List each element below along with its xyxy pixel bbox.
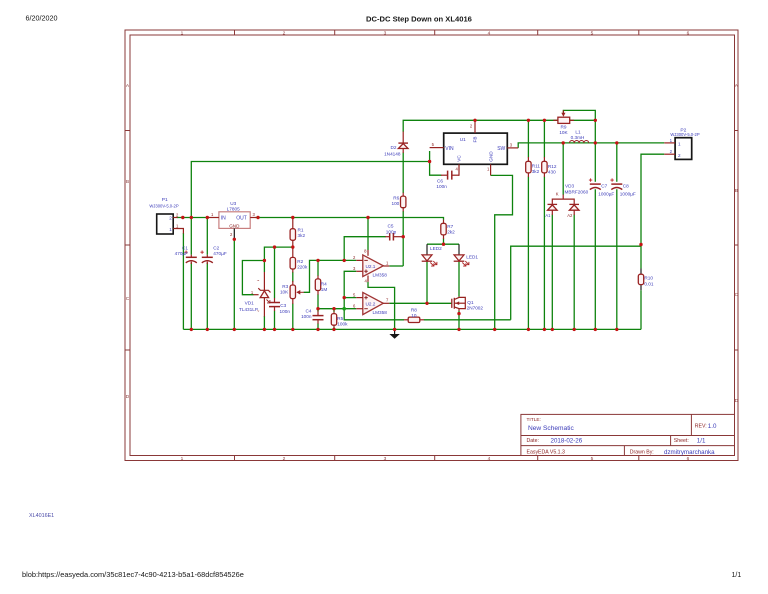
- ruler tick bottom 1: [234, 456, 236, 461]
- sheet border outer frame: [125, 30, 738, 461]
- junction P1 pin2 b: [190, 216, 193, 219]
- pin U3.1: [209, 217, 219, 219]
- junction Q1 source pin: [457, 312, 460, 315]
- svg-text:VD3: VD3: [565, 184, 575, 189]
- junction P1 pin2 a: [181, 216, 184, 219]
- svg-text:K: K: [556, 191, 559, 196]
- svg-text:1: 1: [169, 227, 172, 232]
- wire LED anode bar: [427, 243, 459, 245]
- junction R1 top: [291, 216, 294, 219]
- svg-text:~: ~: [257, 278, 260, 283]
- svg-text:100n: 100n: [280, 309, 291, 314]
- junction rail VD1: [263, 328, 266, 331]
- svg-text:3: 3: [384, 30, 387, 36]
- connector P1: [149, 197, 179, 234]
- svg-text:SW: SW: [497, 146, 505, 152]
- pin P2.2: [664, 153, 675, 155]
- capacitor C1 polarized: [175, 245, 197, 264]
- pin P2.1: [664, 142, 675, 144]
- svg-text:100k: 100k: [337, 322, 348, 327]
- wire LED1 cathode to Q1 drain: [458, 261, 460, 296]
- ruler tick top 2: [334, 30, 336, 35]
- inductor L1: [570, 130, 589, 143]
- junction rail U1gnd: [493, 328, 496, 331]
- junction rail Q1: [457, 328, 460, 331]
- wire P1 pin2 to U3 IN: [177, 217, 209, 219]
- junction R7 bottom LED bar: [442, 243, 445, 246]
- svg-text:TL431LP: TL431LP: [239, 307, 258, 312]
- wire VD3 right anode to ground rail: [573, 215, 575, 330]
- wire VD3 left anode to ground rail: [551, 215, 553, 330]
- svg-text:R5: R5: [337, 316, 343, 321]
- junction rail C1: [190, 328, 193, 331]
- pin U1.2 FB: [474, 120, 476, 133]
- svg-text:R10: R10: [644, 276, 653, 281]
- svg-text:100p: 100p: [386, 229, 397, 234]
- wire SW riser to output rail: [518, 143, 664, 148]
- svg-text:1000µF: 1000µF: [598, 192, 614, 197]
- dual diode VD3 MBRF2060: [545, 184, 588, 218]
- wire C8 branch upper: [616, 143, 618, 182]
- junction rail C4: [316, 328, 319, 331]
- ruler tick bottom 5: [638, 456, 640, 461]
- wire LED2 cathode to gate row: [426, 261, 428, 303]
- junction rail R3: [291, 328, 294, 331]
- junction rail R11: [527, 328, 530, 331]
- svg-text:R1: R1: [298, 228, 304, 233]
- svg-text:1: 1: [181, 456, 184, 462]
- wire C4 bottom to ground rail: [317, 323, 319, 329]
- junction opamp V+: [366, 216, 369, 219]
- svg-text:2: 2: [283, 456, 286, 462]
- wire R3 wiper to inverting input row: [304, 260, 357, 292]
- ruler tick top 1: [234, 30, 236, 35]
- wire R11 branch top: [527, 120, 529, 157]
- svg-text:0.3mH: 0.3mH: [571, 135, 585, 140]
- title block divider Sheet: [670, 436, 672, 446]
- svg-text:EasyEDA V5.1.3: EasyEDA V5.1.3: [527, 449, 565, 455]
- junction R4 C4 pin6: [316, 307, 319, 310]
- ruler tick top 4: [537, 30, 539, 35]
- capacitor C3: [269, 298, 290, 314]
- svg-text:6: 6: [687, 456, 690, 462]
- svg-text:C3: C3: [280, 303, 286, 308]
- svg-text:0.01: 0.01: [644, 281, 654, 286]
- svg-text:D2: D2: [391, 145, 397, 150]
- svg-text:Drawn By:: Drawn By:: [630, 449, 654, 455]
- svg-text:5: 5: [591, 456, 594, 462]
- svg-text:R2: R2: [297, 259, 303, 264]
- svg-text:U3: U3: [230, 201, 236, 206]
- svg-text:R6: R6: [393, 196, 399, 201]
- svg-text:R7: R7: [447, 224, 453, 229]
- svg-text:5: 5: [591, 30, 594, 36]
- ruler tick top 3: [434, 30, 436, 35]
- svg-text:1/1: 1/1: [732, 572, 742, 579]
- title block row line 2: [521, 445, 735, 447]
- svg-text:FB: FB: [473, 137, 478, 143]
- svg-text:C2: C2: [213, 245, 219, 250]
- svg-text:10: 10: [411, 313, 417, 318]
- svg-text:3k2: 3k2: [532, 169, 540, 174]
- pin U1.3 SW: [507, 147, 518, 149]
- svg-text:GND: GND: [488, 151, 493, 162]
- junction R9 right: [594, 119, 597, 122]
- pin P1.2: [173, 217, 177, 219]
- junction R5 top: [332, 307, 335, 310]
- svg-text:D: D: [735, 398, 739, 404]
- wire opamp V+ pin8 drop from +5V rail: [367, 218, 369, 251]
- svg-text:1N4148: 1N4148: [384, 151, 401, 156]
- wire C1 branch lower: [190, 263, 192, 330]
- svg-text:REV:: REV:: [695, 424, 707, 430]
- svg-text:470µF: 470µF: [175, 251, 189, 256]
- svg-text:VIN: VIN: [445, 146, 454, 152]
- wire D2 anode to R6: [402, 153, 404, 194]
- wire LED2 drop black upper: [426, 244, 428, 255]
- junction R11 top: [527, 119, 530, 122]
- svg-text:L1: L1: [575, 130, 581, 135]
- resistor R12: [542, 157, 557, 177]
- svg-text:VD1: VD1: [245, 301, 255, 306]
- wire R9 wiper loop: [563, 110, 595, 142]
- wire C1 branch upper: [190, 218, 192, 255]
- wire U1 GND jog down to ground rail: [491, 175, 513, 329]
- svg-text:1.0: 1.0: [708, 423, 717, 430]
- svg-text:C4: C4: [306, 308, 312, 313]
- title block row line 1: [521, 435, 735, 437]
- svg-text:LED2: LED2: [430, 246, 442, 251]
- sheet border inner frame: [130, 35, 735, 456]
- capacitor C5: [385, 224, 403, 241]
- svg-text:XL4016E1: XL4016E1: [29, 513, 54, 519]
- svg-text:C6: C6: [437, 178, 443, 183]
- svg-text:R9: R9: [561, 125, 567, 130]
- wire P1 pin1 down to ground rail corner: [182, 233, 184, 329]
- svg-text:10K: 10K: [559, 130, 568, 135]
- svg-text:1/1: 1/1: [697, 438, 706, 445]
- svg-text:2018-02-26: 2018-02-26: [551, 438, 583, 445]
- wire noninv pin3 down to pin5 and R8 corner: [344, 271, 404, 320]
- LED1: [454, 255, 479, 266]
- capacitor C4: [301, 308, 323, 324]
- wire VD3 cathode stem: [562, 143, 564, 195]
- junction dots red: [181, 119, 643, 331]
- capacitor C7 polarized: [589, 178, 615, 196]
- svg-text:C7: C7: [601, 183, 607, 188]
- shunt regulator VD1 TL431LP: [239, 272, 271, 317]
- ruler tick left 3: [125, 349, 130, 351]
- wire R4 to C4 link: [317, 294, 319, 311]
- junction green pin6 crossing: [342, 307, 346, 311]
- wire input rail from P1 up-and-over: [191, 162, 429, 218]
- svg-text:New Schematic: New Schematic: [528, 425, 575, 432]
- ruler tick right 1: [735, 130, 739, 132]
- svg-text:6/20/2020: 6/20/2020: [26, 14, 58, 23]
- ruler tick bottom 2: [334, 456, 336, 461]
- svg-text:2k2: 2k2: [447, 230, 455, 235]
- ruler tick left 1: [125, 130, 130, 132]
- svg-text:2: 2: [283, 30, 286, 36]
- resistor R1: [290, 218, 305, 248]
- junction rail VD3L: [551, 328, 554, 331]
- junction rail R12: [543, 328, 546, 331]
- svg-text:C8: C8: [623, 183, 629, 188]
- svg-text:R11: R11: [532, 163, 541, 168]
- wire P2 pin2 to R10 column: [641, 154, 664, 268]
- wire C3 branch upper: [274, 247, 276, 298]
- wire pin6 row to R4 C4 node: [318, 308, 356, 310]
- svg-text:C: C: [126, 296, 130, 302]
- svg-text:dzmitrymarchanka: dzmitrymarchanka: [664, 449, 715, 456]
- wire C3 branch lower: [274, 311, 276, 330]
- wire C2 branch lower: [206, 263, 208, 330]
- ruler tick bottom 4: [537, 456, 539, 461]
- wire U2.1 output to C5 riser: [389, 265, 403, 267]
- wire R7 bottom to LED bar: [443, 239, 445, 245]
- svg-text:1: 1: [678, 142, 681, 147]
- wire R12 bottom to ground rail: [543, 177, 545, 330]
- junction rail C7: [594, 328, 597, 331]
- junction C2 top: [206, 216, 209, 219]
- svg-text:Sheet:: Sheet:: [674, 438, 689, 444]
- wire R9 pot right leg down to output rail: [570, 119, 596, 121]
- svg-text:100n: 100n: [436, 184, 447, 189]
- svg-text:P1: P1: [162, 197, 168, 203]
- svg-text:WJ300V-5.0-2P: WJ300V-5.0-2P: [670, 132, 700, 137]
- wire R10 lead lower black: [640, 285, 642, 291]
- junction VD1 ref tie: [263, 259, 266, 262]
- resistor R7: [441, 220, 455, 239]
- svg-text:220k: 220k: [297, 265, 308, 270]
- op-amp U2.1 LM358: [353, 249, 389, 284]
- pin U1.5 VIN: [430, 147, 444, 149]
- pin U3.3: [250, 217, 256, 219]
- wire R12 branch top: [543, 120, 545, 157]
- pin U3.2 GND black: [233, 228, 235, 239]
- svg-text:C5: C5: [388, 224, 394, 229]
- junction C7 top: [594, 141, 597, 144]
- svg-text:Q1: Q1: [467, 300, 474, 305]
- junction rail U3gnd: [233, 328, 236, 331]
- junction VD3 top: [562, 141, 565, 144]
- title block outline: [521, 414, 735, 455]
- ruler tick right 2: [735, 244, 739, 246]
- svg-text:3k2: 3k2: [298, 233, 306, 238]
- svg-text:470µF: 470µF: [213, 251, 227, 256]
- wire R4 branch top: [317, 260, 319, 276]
- junction pin5: [343, 296, 346, 299]
- junction R10 top: [639, 243, 642, 246]
- junction node247 C3: [273, 245, 276, 248]
- wire +5V rail U3 OUT to R7 corner: [256, 218, 444, 220]
- wire VD1 ref loop: [242, 261, 264, 295]
- wire U2.2 output to Q1 gate: [389, 302, 452, 304]
- svg-text:4: 4: [488, 30, 491, 36]
- resistor R6: [391, 193, 405, 212]
- svg-text:1M: 1M: [321, 287, 328, 292]
- resistor R8 horizontal: [404, 307, 424, 322]
- capacitor C8 polarized: [610, 178, 636, 196]
- svg-text:LM358: LM358: [373, 272, 388, 277]
- ruler tick bottom 3: [434, 456, 436, 461]
- svg-text:B: B: [735, 188, 738, 194]
- pin P1.1: [173, 229, 183, 234]
- wire VD1 cathode lower to ground rail: [263, 316, 265, 329]
- junction LED2 gate row: [425, 302, 428, 305]
- junction U3 out: [256, 216, 259, 219]
- svg-text:Date:: Date:: [527, 438, 539, 444]
- title block divider DrawnBy: [623, 446, 625, 456]
- wire VIN drop to C6 row: [430, 151, 442, 175]
- junction rail C8: [615, 328, 618, 331]
- wire R5 top stub: [333, 309, 335, 312]
- wire R2 to R3 link: [292, 272, 294, 282]
- svg-text:IN: IN: [221, 216, 226, 222]
- resistor R2: [290, 247, 308, 272]
- ruler tick top 5: [638, 30, 640, 35]
- svg-text:WJ300V-5.0-2P: WJ300V-5.0-2P: [149, 204, 179, 209]
- connector P2: [670, 128, 700, 160]
- junction rail C2: [206, 328, 209, 331]
- svg-text:LM358: LM358: [373, 310, 388, 315]
- wire R8 right to sense riser: [424, 319, 511, 321]
- svg-text:A2: A2: [567, 213, 573, 218]
- resistor R11: [526, 157, 541, 177]
- svg-text:6: 6: [687, 30, 690, 36]
- pin U1.1 GND: [490, 164, 492, 175]
- svg-text:R8: R8: [411, 307, 417, 312]
- svg-text:1: 1: [181, 30, 184, 36]
- svg-text:2: 2: [678, 153, 681, 158]
- wire R11 bottom to ground rail: [527, 177, 529, 330]
- svg-text:U2.1: U2.1: [366, 264, 376, 269]
- svg-text:VC: VC: [457, 155, 462, 162]
- potentiometer R3: [280, 281, 304, 304]
- potentiometer R9: [553, 110, 574, 135]
- svg-text:100n: 100n: [301, 314, 312, 319]
- wire C7 bottom to ground rail: [594, 189, 596, 329]
- wire C7 branch upper: [594, 143, 596, 182]
- svg-text:4: 4: [488, 456, 491, 462]
- MOSFET Q1 2N7002: [452, 297, 484, 311]
- svg-text:L7805: L7805: [227, 206, 240, 211]
- wire ground rail bottom: [183, 328, 641, 330]
- svg-text:C1: C1: [182, 245, 188, 250]
- svg-text:2: 2: [169, 216, 172, 221]
- wire opamp V- pin4 to ground column: [368, 282, 395, 330]
- junction node247 R1R2: [291, 245, 294, 248]
- wire Q1 source to ground rail: [458, 311, 460, 329]
- junction C5 right: [402, 235, 405, 238]
- resistor R10 shunt: [638, 274, 654, 286]
- op-amp U2.2 LM358: [353, 292, 389, 315]
- svg-text:1000µF: 1000µF: [620, 192, 636, 197]
- wire U3 GND to ground rail: [233, 239, 235, 329]
- svg-text:U2.2: U2.2: [366, 301, 376, 306]
- capacitor C6: [436, 171, 459, 189]
- svg-text:2N7002: 2N7002: [467, 306, 484, 311]
- junction C8 top: [615, 141, 618, 144]
- wire R10 bottom to ground rail corner: [640, 290, 642, 329]
- svg-text:MBRF2060: MBRF2060: [565, 189, 589, 194]
- svg-text:OUT: OUT: [236, 216, 247, 222]
- svg-text:D: D: [126, 394, 130, 400]
- svg-text:10K: 10K: [280, 290, 289, 295]
- resistor R4: [315, 276, 327, 295]
- junction R4 top: [316, 259, 319, 262]
- svg-text:LED1: LED1: [466, 255, 478, 260]
- svg-text:DC-DC Step Down on XL4016: DC-DC Step Down on XL4016: [366, 14, 472, 23]
- svg-text:100: 100: [391, 201, 399, 206]
- wire pin5 stub: [344, 297, 356, 299]
- ruler tick left 2: [125, 244, 130, 246]
- wire R10 lead upper black: [640, 269, 642, 275]
- svg-text:430: 430: [548, 170, 556, 175]
- svg-text:3: 3: [384, 456, 387, 462]
- title block divider REV: [690, 414, 692, 435]
- svg-text:B: B: [126, 179, 129, 185]
- junction FB pin: [473, 119, 476, 122]
- junction R12 top: [543, 119, 546, 122]
- ruler tick right 3: [735, 349, 739, 351]
- wire R3 bottom to ground rail: [292, 304, 294, 330]
- junction U3 gnd pin end: [233, 238, 236, 241]
- junction rail C3: [273, 328, 276, 331]
- wire R6 bottom through +5V rail to C5 junction and output: [402, 211, 404, 266]
- wire R5 bottom to ground rail: [333, 327, 335, 329]
- ground symbol: [389, 329, 399, 338]
- pin U1.4 VC: [458, 164, 460, 176]
- wire C2 branch upper: [206, 218, 208, 255]
- wire LED1 drop black upper: [458, 244, 460, 255]
- svg-text:R4: R4: [321, 282, 327, 287]
- svg-text:C: C: [735, 292, 739, 298]
- capacitor C2 polarized: [200, 245, 226, 264]
- svg-text:A1: A1: [545, 213, 551, 218]
- junction rail gnd: [393, 328, 396, 331]
- svg-text:GND: GND: [229, 223, 240, 228]
- svg-text:R3: R3: [282, 284, 288, 289]
- resistor R5: [331, 312, 348, 328]
- svg-text:R12: R12: [548, 164, 557, 169]
- wire C5 feedback loop left leg: [344, 237, 386, 261]
- svg-text:TITLE:: TITLE:: [527, 417, 541, 423]
- wire C8 bottom to ground rail: [616, 189, 618, 329]
- diode D2 1N4148: [384, 132, 408, 157]
- buck regulator U1 XL4016: [444, 133, 508, 164]
- junction rail R5: [332, 328, 335, 331]
- junction rail VD3R: [573, 328, 576, 331]
- LED2: [422, 246, 442, 266]
- regulator U3 L7805: [219, 201, 250, 229]
- junction VIN drop: [428, 160, 431, 163]
- wire D2 top corner from FB row: [403, 120, 558, 132]
- svg-text:blob:https://easyeda.com/35c81: blob:https://easyeda.com/35c81ec7-4c90-4…: [22, 570, 244, 579]
- wire sense riser up and over to R10 top: [511, 246, 641, 320]
- svg-text:U1: U1: [460, 137, 466, 142]
- junction pin2 C5 branch: [343, 259, 346, 262]
- wire node247 horizontal R1 bottom to VD1 corner: [264, 247, 292, 272]
